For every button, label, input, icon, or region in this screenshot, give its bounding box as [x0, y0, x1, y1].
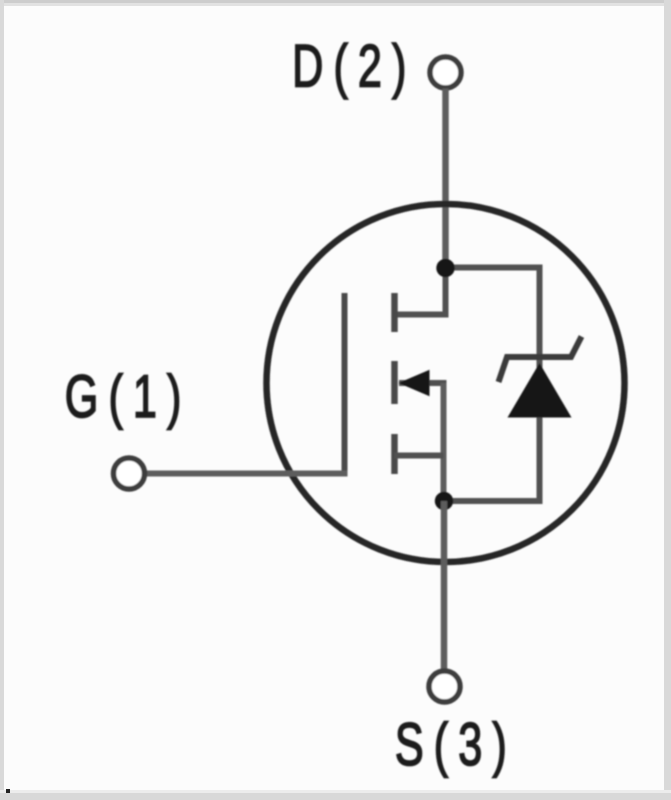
svg-text:S(3): S(3)	[395, 712, 517, 779]
channel segment middle	[391, 361, 398, 404]
scan border left	[0, 0, 4, 800]
label D(2)	[292, 34, 416, 101]
terminal D pin 2 circle	[430, 57, 461, 88]
diode D1 triangle	[508, 363, 572, 418]
diode D1 zener cathode bar	[499, 337, 582, 383]
wire drain to channel	[394, 268, 446, 315]
node drain junction	[436, 259, 454, 277]
scan border bottom	[0, 790, 671, 793]
gate bar	[342, 293, 348, 476]
channel segment bottom	[391, 434, 398, 474]
channel segment top	[391, 293, 398, 332]
terminal S pin 3 circle	[429, 671, 460, 702]
terminal G pin 1 circle	[114, 458, 145, 489]
scan border right	[664, 0, 671, 800]
wire source vertical	[441, 383, 447, 501]
svg-text:D(2): D(2)	[292, 34, 416, 101]
label S(3)	[395, 712, 517, 779]
wire gate lead	[147, 471, 348, 477]
svg-text:G(1): G(1)	[65, 364, 192, 431]
transistor Q1 envelope circle	[267, 204, 625, 562]
scan border top	[0, 0, 671, 3]
body arrow	[399, 370, 430, 396]
wire drain lead	[442, 89, 449, 269]
node source junction	[435, 492, 453, 510]
wire body connection	[399, 380, 447, 386]
stray period mark bottom-left	[6, 789, 10, 793]
wire source to channel	[395, 453, 444, 459]
wire source lead	[441, 501, 448, 671]
wire drain to body-diode branch	[444, 268, 540, 502]
label G(1)	[65, 364, 192, 431]
